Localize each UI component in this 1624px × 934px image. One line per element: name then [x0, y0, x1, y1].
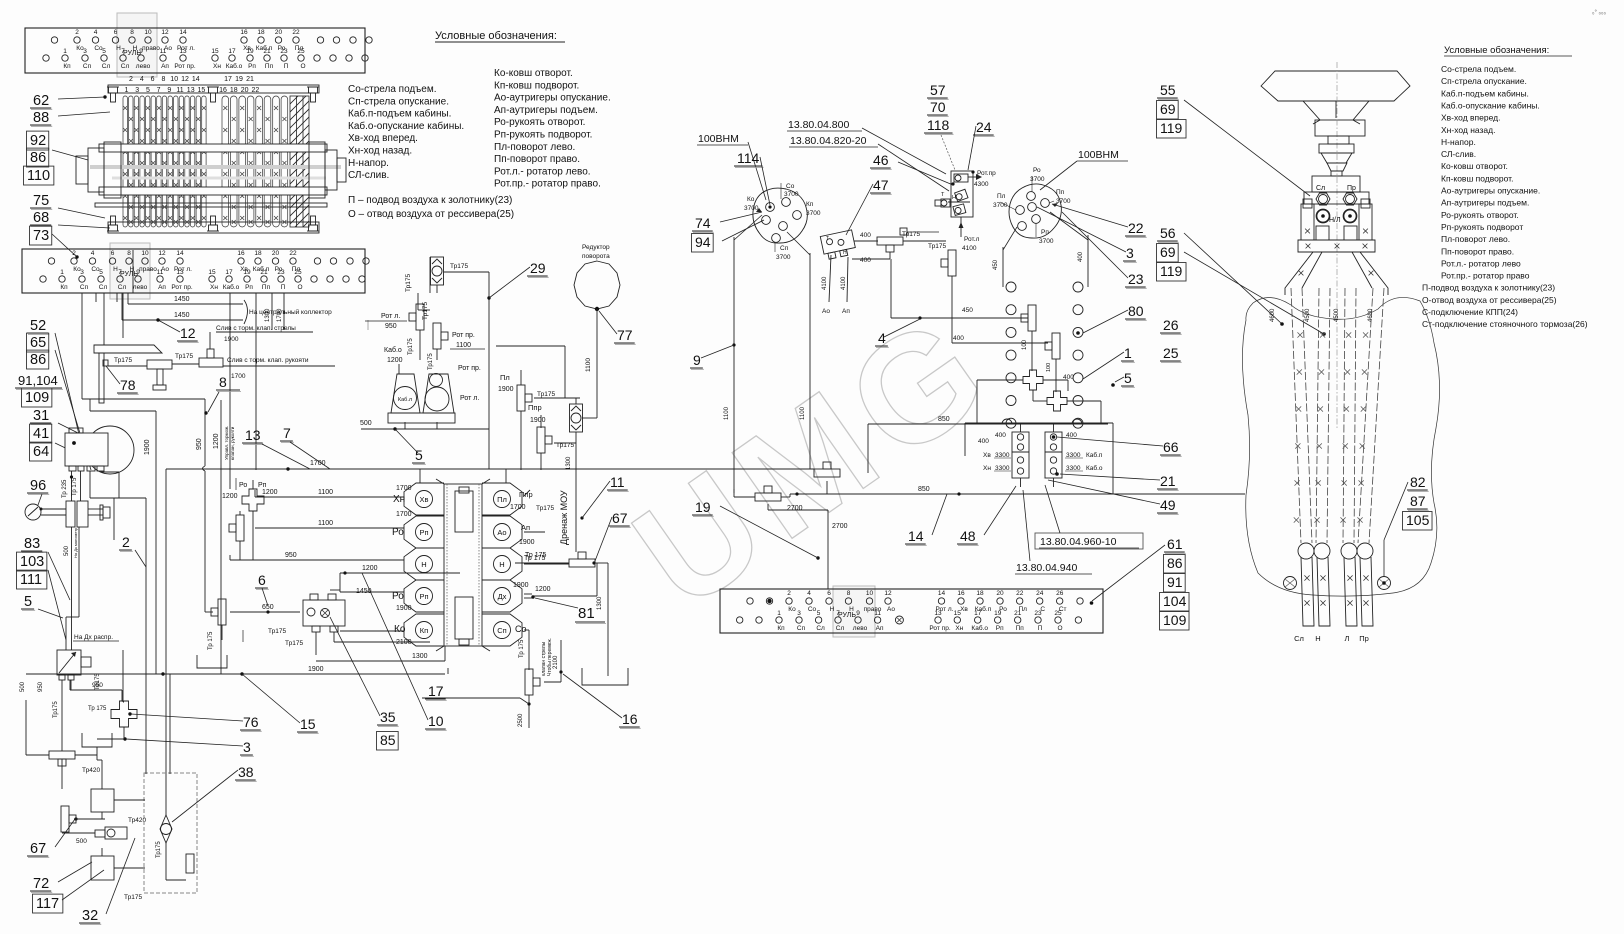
wire 850 y424: [868, 423, 1108, 425]
wire top ports: [419, 469, 421, 483]
svg-text:1450: 1450: [174, 296, 190, 303]
plate 100VNM right: [1009, 184, 1061, 238]
svg-text:Т: Т: [826, 236, 829, 242]
svg-text:Ао: Ао: [822, 308, 830, 315]
head stems: [1316, 226, 1329, 240]
wire 1900b: [447, 668, 449, 674]
body bracket: [1298, 240, 1375, 252]
tee Pl: [517, 385, 525, 411]
wire x734: [733, 237, 735, 493]
manifold left flange: [76, 142, 121, 198]
svg-text:1: 1: [125, 87, 129, 94]
svg-text:47: 47: [873, 177, 889, 193]
wire 1700 corner down: [165, 469, 167, 815]
svg-text:25: 25: [1054, 610, 1062, 617]
wire 450 947: [951, 276, 953, 318]
svg-text:Сп: Сп: [83, 63, 92, 70]
valve small circle: [105, 827, 127, 839]
svg-text:Каб.о: Каб.о: [1086, 464, 1103, 472]
watermark UMG: [605, 278, 1022, 641]
svg-text:1200: 1200: [262, 489, 278, 496]
svg-text:Сп-стрела опускание.: Сп-стрела опускание.: [348, 96, 449, 107]
svg-text:86: 86: [30, 150, 46, 166]
tee drain: [569, 559, 595, 567]
svg-text:Сл: Сл: [1316, 185, 1325, 192]
svg-text:Со: Со: [808, 606, 817, 613]
svg-text:Сл: Сл: [1294, 634, 1304, 643]
svg-text:Н: Н: [952, 195, 956, 201]
svg-text:26: 26: [1056, 590, 1064, 597]
svg-text:3700: 3700: [784, 191, 799, 198]
svg-text:104: 104: [1163, 593, 1187, 609]
wire from strip2 Sp: [81, 293, 83, 399]
svg-text:Тр420: Тр420: [82, 767, 100, 774]
svg-text:26: 26: [1163, 317, 1179, 333]
svg-text:52: 52: [30, 318, 46, 334]
wire 500 bottom: [361, 428, 489, 430]
svg-text:Хн: Хн: [955, 625, 963, 632]
svg-text:Тр175: Тр175: [428, 353, 434, 370]
manifold right flange: [309, 142, 346, 198]
wire 950 vertical: [82, 398, 205, 400]
svg-text:57: 57: [930, 82, 946, 98]
svg-text:24: 24: [976, 119, 992, 135]
svg-text:83: 83: [24, 536, 40, 552]
svg-text:5: 5: [24, 594, 32, 610]
svg-text:950: 950: [196, 438, 203, 450]
port Сп right 630: [482, 614, 522, 646]
svg-text:1700: 1700: [277, 308, 283, 322]
svg-text:64: 64: [33, 444, 49, 460]
svg-text:Ппр: Ппр: [528, 403, 542, 412]
svg-text:450: 450: [993, 259, 999, 270]
svg-text:86: 86: [30, 352, 46, 368]
svg-text:5: 5: [817, 610, 821, 617]
svg-text:1200: 1200: [387, 357, 403, 364]
svg-text:Каб.о: Каб.о: [226, 62, 243, 70]
cab valve trapezoids: [391, 374, 420, 413]
tee rot l: [416, 304, 424, 330]
wires loops: [1010, 292, 1012, 296]
svg-text:Тр175: Тр175: [536, 505, 554, 512]
node 117: [33, 894, 63, 913]
svg-text:2700: 2700: [787, 505, 803, 512]
svg-text:35: 35: [380, 709, 396, 725]
svg-text:38: 38: [238, 764, 254, 780]
svg-text:950: 950: [285, 552, 297, 559]
svg-text:2100: 2100: [553, 655, 559, 669]
svg-text:Н: Н: [830, 606, 835, 613]
svg-text:Хн: Хн: [210, 284, 218, 291]
svg-text:право: право: [139, 266, 157, 273]
svg-text:13: 13: [187, 87, 195, 94]
svg-text:850: 850: [938, 416, 950, 423]
wire 1300 1700 stubs: [271, 293, 273, 330]
svg-text:4100: 4100: [841, 276, 847, 290]
svg-text:77: 77: [617, 327, 633, 343]
head hex ports: [1316, 193, 1330, 205]
svg-text:19: 19: [994, 610, 1002, 617]
node 86: [27, 148, 49, 167]
svg-text:Каб.о: Каб.о: [971, 624, 988, 632]
node 103: [17, 552, 47, 571]
svg-text:81: 81: [578, 605, 595, 622]
svg-text:Кп: Кп: [420, 626, 428, 635]
svg-text:25: 25: [297, 48, 305, 55]
svg-text:23: 23: [277, 269, 285, 276]
svg-text:1900: 1900: [498, 386, 514, 393]
svg-text:Рп: Рп: [1041, 229, 1049, 236]
svg-text:1700: 1700: [396, 511, 412, 518]
svg-text:Н: Н: [1315, 634, 1320, 643]
svg-text:10: 10: [428, 713, 444, 729]
svg-text:91: 91: [1167, 574, 1183, 590]
svg-text:Сп-стрела опускание.: Сп-стрела опускание.: [1441, 76, 1527, 86]
svg-text:22: 22: [1128, 220, 1144, 236]
svg-text:Пп: Пп: [265, 63, 274, 70]
svg-text:1900: 1900: [396, 605, 412, 612]
svg-text:Хв: Хв: [960, 606, 968, 613]
wire rot l: [960, 217, 962, 237]
svg-text:1: 1: [777, 610, 781, 617]
svg-text:П-подвод воздуха к золотнику(2: П-подвод воздуха к золотнику(23): [1422, 283, 1555, 293]
node 69: [1157, 101, 1179, 119]
svg-text:РУЛЬ: РУЛЬ: [120, 271, 138, 278]
svg-text:9: 9: [856, 610, 860, 617]
svg-text:12: 12: [161, 29, 169, 36]
svg-text:109: 109: [1163, 612, 1187, 628]
svg-text:Тр175: Тр175: [537, 391, 555, 398]
svg-text:15: 15: [954, 610, 962, 617]
svg-text:Тр175: Тр175: [156, 841, 162, 858]
svg-text:1900: 1900: [308, 666, 324, 673]
svg-text:3700: 3700: [776, 254, 791, 261]
svg-text:1200: 1200: [535, 586, 551, 593]
svg-text:67: 67: [30, 841, 46, 857]
node 92: [27, 131, 49, 150]
svg-text:96: 96: [30, 478, 46, 494]
check valve V3: [570, 404, 583, 432]
node 109: [22, 388, 52, 407]
svg-text:500: 500: [64, 545, 70, 556]
svg-text:лево: лево: [133, 284, 148, 291]
wire bundle verticals: [229, 293, 231, 489]
svg-text:1: 1: [60, 269, 64, 276]
svg-text:16: 16: [237, 250, 245, 257]
svg-text:41: 41: [33, 426, 49, 442]
pilot valve column: [951, 171, 973, 217]
svg-text:500: 500: [360, 420, 372, 427]
svg-text:10: 10: [141, 250, 149, 257]
pump unit 31 41 64: [86, 426, 134, 474]
svg-text:4300: 4300: [974, 181, 989, 188]
svg-text:Пп: Пп: [1016, 625, 1025, 632]
node 104: [1160, 593, 1190, 611]
svg-text:Каб.о: Каб.о: [223, 283, 240, 291]
port Н right 564: [482, 548, 522, 580]
svg-text:1300: 1300: [597, 596, 603, 610]
svg-text:20: 20: [272, 250, 280, 257]
svg-text:Рот.пр.- ротатор право: Рот.пр.- ротатор право: [1441, 271, 1530, 281]
svg-text:клапан, рукояти: клапан, рукояти: [230, 426, 235, 460]
svg-text:3700: 3700: [744, 205, 759, 212]
port Рп left 596: [404, 580, 444, 612]
tee boom valve: [525, 669, 533, 695]
svg-text:400: 400: [995, 432, 1006, 439]
svg-text:20: 20: [241, 87, 249, 94]
svg-text:20: 20: [996, 590, 1004, 597]
svg-text:Рп: Рп: [419, 528, 428, 537]
svg-text:3700: 3700: [993, 202, 1008, 209]
steering wheel: [1261, 71, 1410, 101]
node 119: [1157, 263, 1187, 281]
svg-text:Хв: Хв: [420, 495, 429, 504]
svg-text:14: 14: [938, 590, 946, 597]
svg-text:Рот пр.: Рот пр.: [929, 625, 950, 632]
tee left tank: [218, 599, 226, 625]
svg-text:25: 25: [294, 269, 302, 276]
svg-text:100ВНМ: 100ВНМ: [1078, 149, 1119, 161]
svg-text:16: 16: [219, 87, 227, 94]
svg-text:Рп: Рп: [248, 63, 256, 70]
svg-text:114: 114: [737, 150, 760, 166]
terminal strip: [110, 243, 150, 299]
svg-text:Тр 175: Тр 175: [519, 639, 525, 658]
wire N 950: [230, 559, 404, 561]
cab floor outline: [1242, 297, 1439, 596]
solenoid box B 72 117: [91, 856, 114, 880]
wires left ports drop: [254, 490, 256, 497]
svg-text:17: 17: [224, 76, 232, 83]
svg-text:22: 22: [292, 29, 300, 36]
svg-text:15: 15: [211, 48, 219, 55]
svg-text:Рот пр.: Рот пр.: [174, 63, 195, 70]
svg-text:4: 4: [91, 250, 95, 257]
svg-text:Н: Н: [843, 250, 847, 256]
svg-text:С-подключение КПП(24): С-подключение КПП(24): [1422, 307, 1518, 317]
svg-text:21: 21: [1160, 473, 1176, 489]
svg-text:клапан стрелы: клапан стрелы: [541, 641, 547, 676]
svg-text:78: 78: [120, 377, 136, 393]
svg-text:119: 119: [1160, 120, 1183, 136]
connector circles right column: [1073, 282, 1083, 292]
svg-text:Рп: Рп: [258, 482, 267, 489]
tee 47a: [877, 237, 903, 245]
svg-text:1100: 1100: [724, 406, 730, 420]
svg-text:Рот пр.: Рот пр.: [171, 284, 192, 291]
connector block left: [1012, 432, 1029, 478]
svg-text:Ст-подключение стояночного тор: Ст-подключение стояночного тормоза(26): [1422, 319, 1588, 329]
node 111: [17, 570, 47, 589]
node 91: [1164, 574, 1186, 592]
svg-text:П: П: [284, 63, 289, 70]
svg-text:87: 87: [1410, 493, 1426, 509]
svg-text:950: 950: [385, 323, 397, 330]
svg-text:Ро-рукоять отворот.: Ро-рукоять отворот.: [1441, 210, 1519, 220]
svg-text:4500: 4500: [1305, 308, 1311, 322]
svg-text:100: 100: [1022, 339, 1028, 350]
svg-text:Ко: Ко: [747, 196, 755, 203]
svg-text:Каб.л: Каб.л: [398, 397, 412, 403]
svg-text:4600: 4600: [1270, 308, 1276, 322]
svg-text:68: 68: [33, 210, 49, 226]
gauge valves: [66, 501, 75, 527]
check valve V1: [431, 257, 444, 285]
svg-text:117: 117: [36, 896, 59, 912]
svg-text:7: 7: [283, 425, 291, 441]
svg-text:Пп-поворот право.: Пп-поворот право.: [494, 154, 580, 165]
svg-text:Рот.пр.- ротатор право.: Рот.пр.- ротатор право.: [494, 179, 601, 190]
svg-text:СЛ-слив.: СЛ-слив.: [1441, 149, 1476, 159]
node 73: [30, 226, 52, 245]
svg-text:Рп-рукоять подворот: Рп-рукоять подворот: [1441, 222, 1523, 232]
svg-text:Рп: Рп: [419, 592, 428, 601]
head rings: [1317, 210, 1330, 223]
svg-text:Пл-поворот лево.: Пл-поворот лево.: [1441, 234, 1510, 244]
svg-text:Сл: Сл: [99, 284, 108, 291]
svg-text:32: 32: [82, 908, 98, 924]
tee bottom2: [49, 751, 75, 759]
svg-text:4100: 4100: [822, 276, 828, 290]
svg-text:13.80.04.940: 13.80.04.940: [1016, 562, 1077, 574]
svg-text:Тр175: Тр175: [285, 640, 303, 647]
svg-text:Условные обозначения:: Условные обозначения:: [1444, 45, 1549, 56]
svg-text:Н: Н: [499, 560, 504, 569]
svg-text:Н-напор.: Н-напор.: [1441, 137, 1476, 147]
svg-text:6: 6: [258, 572, 266, 588]
svg-text:24: 24: [1036, 590, 1044, 597]
svg-text:Кп-ковш подворот.: Кп-ковш подворот.: [494, 80, 579, 91]
svg-text:П – подвод воздуха к золотнику: П – подвод воздуха к золотнику(23): [348, 195, 512, 206]
svg-text:О – отвод воздуха от рессивера: О – отвод воздуха от рессивера(25): [348, 209, 514, 220]
svg-text:8: 8: [161, 76, 165, 83]
svg-text:88: 88: [33, 110, 49, 126]
valve 47 body: [820, 230, 856, 260]
svg-text:1200: 1200: [362, 565, 378, 572]
port Рп left 532: [404, 516, 444, 548]
svg-text:Ао-аутригеры опускание.: Ао-аутригеры опускание.: [1441, 186, 1540, 196]
svg-text:119: 119: [1160, 263, 1183, 279]
svg-text:3700: 3700: [806, 210, 821, 217]
svg-text:П: П: [1038, 625, 1043, 632]
svg-text:Рот.л.- ротатор лево: Рот.л.- ротатор лево: [1441, 258, 1521, 268]
svg-text:Каб.п: Каб.п: [1086, 451, 1103, 459]
tee col1: [1028, 305, 1036, 331]
svg-text:23: 23: [280, 48, 288, 55]
wire 850 y494: [781, 496, 790, 498]
svg-text:15: 15: [198, 87, 206, 94]
port Пл right 499: [482, 483, 522, 515]
tee below cross: [236, 515, 244, 541]
svg-text:Сп: Сп: [797, 625, 806, 632]
svg-text:1300: 1300: [412, 653, 428, 660]
svg-text:82: 82: [1410, 474, 1426, 490]
head side tubes: [1301, 204, 1314, 240]
svg-text:8: 8: [847, 590, 851, 597]
wire 1200 upper: [340, 572, 460, 574]
node 119: [1157, 120, 1187, 138]
tee Ppr: [537, 427, 545, 453]
svg-text:12: 12: [180, 325, 196, 341]
svg-text:Хв-ход вперед.: Хв-ход вперед.: [1441, 113, 1500, 123]
svg-text:Хв-ход вперед.: Хв-ход вперед.: [348, 133, 418, 144]
svg-text:П: П: [281, 284, 286, 291]
wire block6 bottom: [315, 632, 317, 655]
cross fitting Ro Rn: [242, 489, 264, 511]
svg-text:3: 3: [83, 48, 87, 55]
svg-text:72: 72: [33, 876, 49, 892]
svg-text:Слив с торм. клап. рукояти: Слив с торм. клап. рукояти: [227, 357, 309, 364]
svg-text:22: 22: [1016, 590, 1024, 597]
svg-text:Сл: Сл: [836, 625, 845, 632]
svg-text:1100: 1100: [800, 406, 806, 420]
flare legs: [1285, 252, 1313, 295]
svg-text:400: 400: [1078, 251, 1084, 262]
svg-text:Хн: Хн: [393, 494, 405, 505]
svg-text:Ко-ковш отворот.: Ко-ковш отворот.: [494, 68, 573, 79]
svg-text:500: 500: [20, 681, 26, 692]
svg-text:Ко-ковш отворот.: Ко-ковш отворот.: [1441, 161, 1508, 171]
svg-text:14: 14: [908, 528, 924, 544]
svg-text:21: 21: [260, 269, 268, 276]
svg-text:Со-стрела подъем.: Со-стрела подъем.: [1441, 64, 1516, 74]
cross col2: [1047, 391, 1067, 411]
svg-text:Ро-рукоять отворот.: Ро-рукоять отворот.: [494, 117, 585, 128]
svg-text:21: 21: [1014, 610, 1022, 617]
wire 1900 bottom long: [26, 673, 445, 675]
svg-text:13.80.04.800: 13.80.04.800: [788, 119, 849, 131]
svg-text:2: 2: [122, 534, 130, 550]
svg-text:Рот пр.: Рот пр.: [452, 332, 475, 339]
svg-text:14: 14: [176, 250, 184, 257]
svg-text:1900: 1900: [224, 336, 239, 343]
svg-text:13: 13: [179, 48, 187, 55]
svg-text:400: 400: [978, 438, 989, 445]
svg-text:15: 15: [208, 269, 216, 276]
wire 400 947: [952, 342, 1048, 344]
node 110: [24, 166, 54, 185]
diamond valve 38: [160, 815, 172, 843]
svg-text:Рп: Рп: [245, 284, 253, 291]
tee x734 bottom: [755, 493, 781, 501]
svg-text:Каб.о-опускание кабины.: Каб.о-опускание кабины.: [1441, 100, 1540, 110]
svg-text:13.80.04.820-20: 13.80.04.820-20: [790, 135, 867, 147]
svg-text:Каб.п-подъем кабины.: Каб.п-подъем кабины.: [1441, 88, 1529, 98]
svg-text:1450: 1450: [174, 312, 190, 319]
port Н left 564: [404, 548, 444, 580]
svg-text:РУЛЬ: РУЛЬ: [123, 50, 141, 57]
svg-text:6: 6: [827, 590, 831, 597]
svg-text:1: 1: [63, 48, 67, 55]
wire 1450: [330, 589, 340, 591]
svg-text:16: 16: [622, 711, 638, 727]
svg-text:48: 48: [960, 528, 976, 544]
svg-text:17: 17: [228, 48, 236, 55]
wires pump down: [71, 471, 73, 501]
svg-text:На Дх распр.: На Дх распр.: [74, 634, 113, 641]
svg-text:4100: 4100: [962, 245, 977, 252]
svg-text:Тр 175: Тр 175: [525, 552, 547, 559]
svg-text:14: 14: [192, 76, 200, 83]
wire drain left: [515, 562, 569, 564]
pilot side port: [941, 199, 950, 207]
mount bolts: [1284, 577, 1297, 590]
svg-text:13: 13: [176, 269, 184, 276]
wire v489: [488, 272, 490, 469]
svg-text:11: 11: [610, 474, 625, 490]
svg-text:19: 19: [695, 499, 711, 515]
svg-text:65: 65: [30, 335, 46, 351]
